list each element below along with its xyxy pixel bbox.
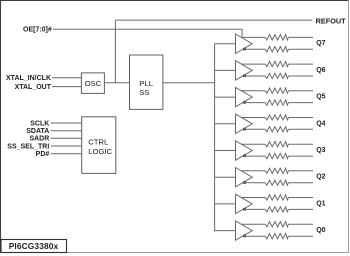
svg-text:Q2: Q2 [316,174,325,181]
svg-text:PD#: PD# [36,151,50,158]
wire buffer Q4 complement output [246,128,265,130]
resistor Q5 true output series termination [265,88,288,93]
buffer Q2 [236,168,253,187]
resistor Q5 complement output series termination [265,100,288,105]
wire buffer Q6 true output [241,63,265,65]
wire buffer Q2 complement output [246,182,265,184]
wire clock bus stub to buffer Q1 [215,203,236,205]
wire Q3 true output to pin [289,143,314,145]
wire Q5 complement output to pin [289,102,314,104]
resistor Q1 complement output series termination [265,207,288,212]
svg-text:SDATA: SDATA [26,128,49,135]
resistor Q6 complement output series termination [265,73,288,78]
resistor Q4 complement output series termination [265,127,288,132]
wire SADR to CTRL LOGIC [51,137,82,139]
wire Q1 true output to pin [289,197,314,199]
wire OSC output to PLL [104,82,129,84]
svg-text:Q7: Q7 [316,40,325,47]
wire SDATA to CTRL LOGIC [51,130,82,132]
resistor Q0 true output series termination [265,222,288,227]
wire buffer Q0 complement output [246,235,265,237]
resistor Q4 true output series termination [265,115,288,120]
wire buffer Q7 complement output [246,48,265,50]
svg-text:XTAL_IN/CLK: XTAL_IN/CLK [6,75,51,82]
wire OE[7:0]# to buffer Q7 enable [53,29,242,37]
wire clock bus stub to buffer Q0 [215,230,236,232]
svg-text:Q5: Q5 [316,94,325,101]
buffer Q5 [236,87,253,106]
svg-text:OSC: OSC [85,79,102,88]
wire buffer Q3 complement output [246,155,265,157]
wire Q2 true output to pin [289,170,314,172]
buffer Q0 [236,221,253,240]
wire Q0 true output to pin [289,223,314,225]
control logic block CTRL LOGIC [82,117,116,174]
wire buffer Q4 true output [241,117,265,119]
svg-text:SADR: SADR [29,136,49,143]
resistor Q6 true output series termination [265,61,288,66]
wire Q6 true output to pin [289,63,314,65]
svg-text:PI6CG3380x: PI6CG3380x [9,241,59,251]
wire buffer Q2 true output [241,170,265,172]
wire REFOUT [115,19,312,21]
wire Q6 complement output to pin [289,75,314,77]
wire SCLK to CTRL LOGIC [51,122,82,124]
wire Q3 complement output to pin [289,155,314,157]
oscillator OSC [81,73,104,94]
svg-text:LOGIC: LOGIC [88,147,112,156]
buffer Q1 [236,194,253,213]
wire buffer Q1 true output [241,197,265,199]
wire XTAL_OUT to OSC [52,86,81,88]
wire Q2 complement output to pin [289,182,314,184]
wire clock bus stub to buffer Q3 [215,150,236,152]
wire clock distribution bus [214,44,216,232]
wire buffer Q6 complement output [246,75,265,77]
svg-text:SCLK: SCLK [30,120,49,127]
resistor Q2 complement output series termination [265,180,288,185]
wire buffer Q7 true output [241,36,265,38]
wire Q4 true output to pin [289,117,314,119]
resistor Q7 complement output series termination [265,47,288,52]
buffer Q7 [236,34,253,53]
svg-text:OE[7:0]#: OE[7:0]# [23,26,52,33]
svg-text:SS_SEL_TRI: SS_SEL_TRI [7,143,49,150]
wire XTAL_IN/CLK to OSC [52,77,81,79]
svg-text:CTRL: CTRL [88,138,109,147]
wire buffer Q5 true output [241,90,265,92]
wire SS_SEL_TRI to CTRL LOGIC [51,145,82,147]
wire clock bus stub to buffer Q2 [215,176,236,178]
resistor Q0 complement output series termination [265,234,288,239]
svg-text:Q3: Q3 [316,147,325,154]
svg-text:PLL: PLL [139,79,153,88]
wire buffer Q5 complement output [246,102,265,104]
svg-text:Q4: Q4 [316,120,325,127]
wire Q0 complement output to pin [289,235,314,237]
wire Q5 true output to pin [289,90,314,92]
wire buffer Q0 true output [241,223,265,225]
title box PI6CG3380x [1,240,67,253]
svg-text:XTAL_OUT: XTAL_OUT [15,84,52,91]
wire PD# to CTRL LOGIC [51,153,82,155]
svg-text:SS: SS [139,88,149,97]
wire PLL output to clock bus [163,82,215,84]
wire clock bus stub to buffer Q4 [215,123,236,125]
wire clock bus stub to buffer Q6 [215,69,236,71]
buffer Q6 [236,61,253,80]
wire REFOUT tap riser [114,20,116,83]
resistor Q2 true output series termination [265,168,288,173]
wire clock bus stub to buffer Q7 [215,43,236,45]
svg-text:REFOUT: REFOUT [316,16,347,25]
wire buffer Q1 complement output [246,208,265,210]
wire clock bus stub to buffer Q5 [215,96,236,98]
svg-text:Q1: Q1 [316,200,325,207]
buffer Q4 [236,114,253,133]
resistor Q1 true output series termination [265,195,288,200]
PLL SS block [130,55,163,109]
svg-text:Q0: Q0 [316,227,325,234]
svg-text:Q6: Q6 [316,67,325,74]
resistor Q7 true output series termination [265,35,288,40]
resistor Q3 complement output series termination [265,153,288,158]
wire Q1 complement output to pin [289,208,314,210]
resistor Q3 true output series termination [265,142,288,147]
wire buffer Q3 true output [241,143,265,145]
wire Q4 complement output to pin [289,128,314,130]
wire Q7 complement output to pin [289,48,314,50]
buffer Q3 [236,141,253,160]
wire Q7 true output to pin [289,36,314,38]
